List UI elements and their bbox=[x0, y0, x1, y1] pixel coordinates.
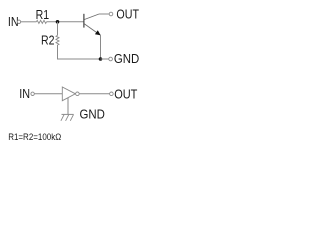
svg-text:R1=R2=100kΩ: R1=R2=100kΩ bbox=[8, 132, 61, 142]
wire node A down to R2 bbox=[57, 22, 59, 36]
svg-text:GND: GND bbox=[80, 108, 105, 122]
svg-text:GND: GND bbox=[114, 52, 139, 66]
wire IN to inverter bbox=[34, 93, 62, 95]
transistor Q1 collector diagonal bbox=[84, 14, 99, 20]
resistor R1 bbox=[36, 20, 46, 23]
transistor Q1 base bar bbox=[83, 14, 85, 28]
node A junction dot bbox=[56, 20, 60, 24]
transistor Q1 emitter arrow bbox=[95, 30, 101, 35]
wire R2 to bottom rail corner bbox=[58, 45, 101, 59]
svg-text:IN: IN bbox=[19, 87, 30, 101]
svg-text:OUT: OUT bbox=[116, 8, 139, 22]
wire inverter to ground bbox=[67, 98, 69, 115]
ground hatch 2 bbox=[66, 115, 69, 121]
inverter U1 triangle bbox=[62, 87, 75, 101]
resistor R2 bbox=[56, 35, 59, 45]
wire inverter to OUT bbox=[79, 93, 109, 95]
terminal circle IN (bottom) bbox=[31, 92, 34, 95]
junction dot at rail/GND bbox=[99, 57, 103, 61]
inverter U1 bubble bbox=[76, 92, 80, 96]
svg-text:R2: R2 bbox=[41, 33, 55, 47]
transistor Q1 emitter diagonal bbox=[84, 24, 100, 35]
wire IN to R1 bbox=[21, 21, 37, 23]
terminal circle OUT (bottom) bbox=[110, 92, 114, 96]
ground hatch 1 bbox=[61, 115, 64, 121]
ground bar bbox=[62, 113, 74, 115]
svg-text:R1: R1 bbox=[36, 8, 50, 22]
wire collector to OUT bbox=[99, 13, 109, 15]
wire emitter down to rail bbox=[100, 35, 102, 59]
wire R1 to node A bbox=[47, 21, 84, 23]
terminal circle IN (top) bbox=[17, 20, 20, 23]
ground hatch 3 bbox=[70, 115, 73, 121]
terminal circle OUT (top) bbox=[109, 12, 113, 16]
terminal circle GND (top) bbox=[109, 57, 113, 61]
wire to GND terminal bbox=[101, 58, 109, 60]
svg-text:OUT: OUT bbox=[114, 87, 138, 101]
